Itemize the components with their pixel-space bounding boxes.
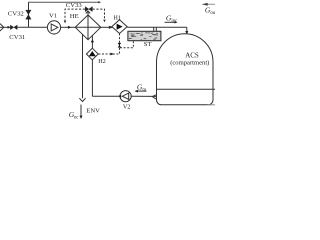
- compartment floor line: [157, 88, 216, 90]
- wire: main line CV31 to V1: [17, 26, 47, 28]
- svg-text:Gec: Gec: [69, 110, 79, 120]
- arrowhead CV33 right: [103, 20, 106, 23]
- wire: riser to CV32: [28, 2, 30, 27]
- inlet chevron arrow: [0, 24, 4, 31]
- device H2 diamond: [86, 48, 98, 60]
- H2 inner triangle: [89, 51, 96, 56]
- wire: HE to H1: [101, 26, 112, 28]
- tank neck: [153, 27, 155, 31]
- arrow G_inc: [165, 21, 175, 23]
- wire: dome to V2: [131, 95, 156, 97]
- svg-text:H2: H2: [98, 58, 106, 65]
- svg-text:V2: V2: [123, 103, 131, 110]
- H1 inner triangle: [117, 24, 123, 30]
- svg-text:(compartment): (compartment): [170, 60, 209, 67]
- arrowhead before V2: [118, 95, 121, 98]
- heat exchanger HE diamond: [75, 15, 101, 40]
- pump V1: [47, 21, 60, 34]
- wire: top bleed line: [28, 1, 99, 3]
- chevron arrow at dome exit: [152, 95, 156, 99]
- dashed control line CV33 right: [93, 9, 105, 20]
- wire: HE through main line: [75, 26, 101, 28]
- svg-text:Gout: Gout: [205, 6, 215, 17]
- wire: return riser up to H2: [91, 60, 93, 97]
- ACS dome: [157, 34, 214, 105]
- pump V2: [120, 91, 131, 102]
- wire: V1 to HE: [61, 26, 76, 28]
- svg-text:V1: V1: [49, 13, 57, 20]
- device H1 diamond: [112, 20, 127, 34]
- arrow G_m: [137, 90, 147, 92]
- svg-text:HE: HE: [70, 13, 79, 20]
- wire: V2 to return riser: [92, 95, 120, 97]
- dashed line H1 down: [119, 34, 121, 55]
- arrowhead after HE: [109, 26, 114, 29]
- chevron arrow exhaust end: [79, 98, 85, 101]
- svg-text:ST: ST: [144, 41, 152, 48]
- HE internal vertical arrow: [87, 11, 89, 39]
- arrow G_ec down: [80, 105, 82, 117]
- valve CV33: [85, 7, 92, 12]
- svg-text:ACS: ACS: [185, 51, 199, 59]
- wire: drop into dome: [186, 27, 188, 31]
- arrowhead on H2 dashed line: [110, 53, 114, 56]
- wire: inlet pipe to CV31: [0, 26, 10, 28]
- valve CV32: [26, 10, 31, 19]
- svg-text:CV33: CV33: [66, 2, 83, 9]
- tank ST: [128, 31, 161, 40]
- dashed line H2 to junction: [98, 53, 119, 55]
- arrowhead into dome: [185, 31, 188, 35]
- wire: H1 to dome drop: [127, 26, 187, 28]
- arrowhead before HE: [68, 26, 71, 29]
- valve CV31: [10, 25, 17, 30]
- wire: H2 up to HE: [91, 35, 93, 48]
- arrowhead CV33 left: [64, 21, 67, 24]
- arrowhead before CV31: [8, 26, 11, 29]
- svg-text:ENV: ENV: [86, 107, 100, 114]
- svg-text:H1: H1: [113, 15, 121, 22]
- dashed control line CV33 left: [65, 9, 85, 21]
- arrowhead into HE bottom: [91, 39, 94, 42]
- arrowhead end of bleed line: [98, 1, 101, 3]
- arrow G_out: [207, 3, 216, 5]
- svg-text:CV31: CV31: [9, 34, 25, 41]
- small bowtie on dashed line: [118, 43, 121, 47]
- dashed branch to ST bottom: [120, 41, 133, 48]
- bottom edge extension: [208, 104, 215, 106]
- svg-text:CV32: CV32: [8, 11, 24, 18]
- wire: HE exhaust down: [82, 34, 84, 98]
